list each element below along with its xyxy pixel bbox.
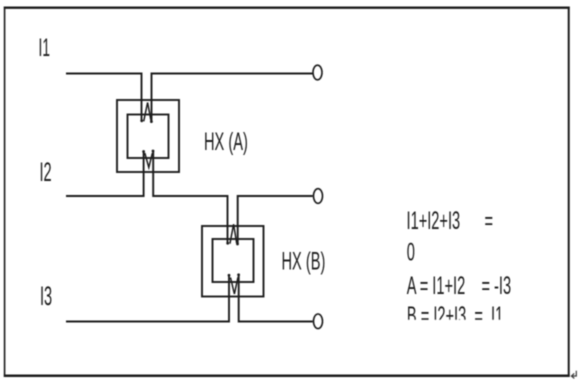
svg-text:A = I1+I2 = -I3: A = I1+I2 = -I3 <box>407 272 511 300</box>
svg-text:I2: I2 <box>39 157 51 187</box>
svg-text:HX (B): HX (B) <box>282 248 326 276</box>
svg-text:I1: I1 <box>39 35 50 62</box>
svg-text:0: 0 <box>407 239 415 267</box>
svg-text:I1+I2+I3 =: I1+I2+I3 = <box>407 207 494 235</box>
svg-text:B = I2+I3 = I1: B = I2+I3 = I1 <box>407 302 503 330</box>
svg-text:I3: I3 <box>40 281 52 311</box>
svg-text:HX (A): HX (A) <box>204 128 248 156</box>
